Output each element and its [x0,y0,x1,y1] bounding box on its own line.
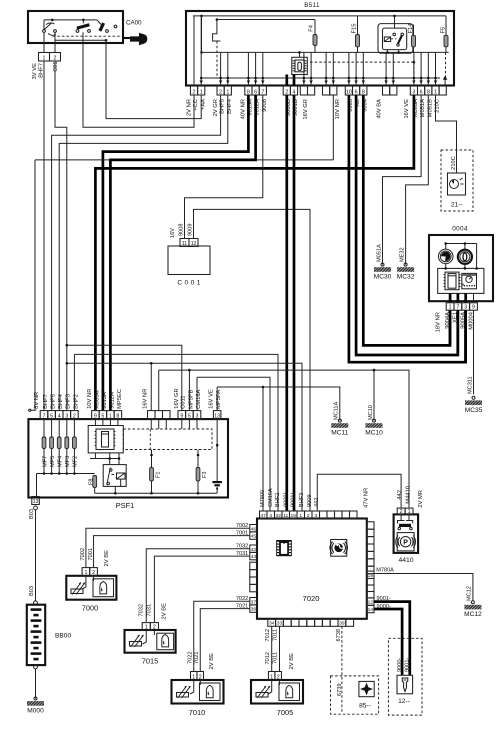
wire 7011 from 7005 to 7020 [279,626,281,671]
wire 7002 from 7000 to 7020 [86,528,250,567]
svg-text:1: 1 [226,89,229,95]
engine fusebox PSF1 [28,419,228,497]
svg-text:9: 9 [180,414,183,420]
svg-text:7021: 7021 [194,652,200,664]
svg-text:MC11A: MC11A [334,401,340,420]
svg-text:BB00: BB00 [55,633,71,640]
svg-text:2V BE: 2V BE [209,653,215,670]
svg-text:1: 1 [145,624,148,630]
4410 switch symbol [400,514,402,520]
0004 connector cells 1/7/3/9 [446,303,454,310]
wire XE1 thick 0004 pin7 [456,310,459,355]
wire 9000D thick from B511 to 7020 [285,95,288,511]
PSF1 relay socket [88,426,123,453]
svg-text:3: 3 [464,305,467,311]
svg-text:16V GR: 16V GR [174,388,180,409]
fuse F4 [313,35,317,46]
svg-text:M7800: M7800 [260,490,266,507]
svg-text:4: 4 [269,513,272,519]
0004 gauge lower stubs [445,264,447,269]
svg-text:MP5EC: MP5EC [117,389,123,409]
PSF1 top cell 13 [213,411,221,420]
0004 IC icon [445,272,459,290]
wire M0004 from 0004 pin9 to ground MC35 [473,310,475,394]
svg-text:MP5FB: MP5FB [188,389,194,408]
svg-text:MF4: MF4 [58,456,64,467]
PSF1 bottom internal wire [95,492,217,494]
0004 gauge 2 (fuel) [458,250,472,264]
svg-text:45: 45 [251,534,257,540]
7020 left cells [250,525,257,532]
svg-text:2: 2 [307,513,310,519]
connector C01 cells 1,2 under CA00 [39,53,50,62]
PSF1 top cells group 3 (16V NR) [148,411,156,420]
wire MP5FA / M7800 ground net [217,387,340,421]
svg-text:1: 1 [434,89,437,95]
B511 connector cells group 1 (2V NR) [190,86,197,95]
svg-text:5: 5 [50,414,53,420]
CA00 internal link wire lower [55,39,106,41]
fuse F8 [93,476,97,488]
svg-text:4410: 4410 [398,557,413,564]
wire 7031 from 7015 to 7020 [154,556,249,623]
svg-text:1: 1 [200,89,203,95]
svg-text:3V VE: 3V VE [32,63,38,80]
B511 bus line [202,51,449,53]
engine ECU 7020 box [257,519,367,619]
svg-text:1: 1 [109,414,112,420]
svg-text:9008: 9008 [178,224,184,236]
svg-text:MP5FA: MP5FA [216,390,222,409]
7015 internal wire [143,630,147,644]
svg-text:7032: 7032 [138,604,144,616]
4410 cells 2/1 [397,508,405,514]
svg-text:1: 1 [43,55,46,61]
wire 9000- thick from 7020 to injection unit [374,609,403,675]
svg-text:3: 3 [314,513,317,519]
svg-text:PSF1: PSF1 [116,501,134,510]
svg-text:7031: 7031 [147,604,153,616]
wire 7022 from 7010 to 7020 [194,601,250,671]
svg-text:F8: F8 [88,478,94,485]
svg-text:BHF5: BHF5 [50,394,56,409]
svg-text:2V BE: 2V BE [161,603,167,620]
svg-text:5: 5 [101,414,104,420]
wire 10V NR from B511 to PSF1 left [332,95,334,160]
fuse F3 [197,450,199,468]
B511 inner notch connector [213,20,221,42]
7010 internal wire [190,680,194,694]
svg-text:BHF4: BHF4 [58,393,64,409]
svg-text:85--: 85-- [359,703,371,710]
PSF1 top cells group 4 (9/5/3) [178,411,186,420]
B511 connector cells group 2 (2V GR) [217,86,224,95]
svg-text:33: 33 [277,621,283,627]
svg-text:9009: 9009 [187,224,193,236]
svg-text:BHF2: BHF2 [275,493,281,507]
svg-text:7: 7 [43,414,46,420]
wire 9009 from C001 to 7020 [194,209,311,511]
wire BHF3 net to 7020 [67,363,302,511]
stub to PSF1 16V NR cells [150,363,152,410]
PSF1 internal bus to B03 [37,473,95,475]
svg-text:1: 1 [270,674,273,680]
key symbol [123,37,130,39]
svg-text:F3: F3 [202,471,208,478]
PSF1 socket pin stubs [94,419,96,425]
svg-text:16V VE: 16V VE [404,99,410,119]
wire 442 from 7020 to 4410 [317,474,401,511]
svg-text:6: 6 [254,89,257,95]
svg-text:2: 2 [219,89,222,95]
wire B03 to battery [35,510,37,601]
B511 internal bottom wire [202,77,440,79]
svg-text:C011: C011 [181,395,187,408]
svg-text:MC10: MC10 [368,405,374,420]
wire CM16A net PSF1 to 7020 [197,377,270,511]
svg-text:14: 14 [368,607,374,613]
svg-text:11: 11 [182,241,187,247]
svg-text:B03: B03 [29,586,35,596]
svg-text:39: 39 [339,621,345,627]
7020 top cells [260,511,268,519]
svg-text:18V NR: 18V NR [435,312,441,332]
svg-text:BHF3: BHF3 [66,394,72,409]
svg-text:12--: 12-- [398,698,410,705]
PSF1 cell 13 bottom and B03 terminal [32,497,40,505]
PSF1 fuses MF7 MF5 MF4 MF3 MF2 [43,419,45,437]
svg-text:MC30: MC30 [374,274,392,281]
svg-text:4: 4 [58,414,61,420]
svg-text:2V BE: 2V BE [289,653,295,670]
B511 inner wire to fuse F4 [217,19,315,21]
svg-text:XC03A: XC03A [94,390,100,409]
B511 connector cells group 7 (40V BA) [383,86,390,95]
svg-text:6739: 6739 [337,684,343,696]
0004 connector stubs [449,293,452,302]
svg-text:BHF3: BHF3 [299,493,305,507]
CA00 mechanical dashed link to key [53,35,123,37]
svg-text:M780A: M780A [376,568,394,574]
B511 connector cells group 4 (9000D/9001D) [283,86,290,95]
0004 small gauge icon [462,273,477,288]
svg-text:2V BE: 2V BE [104,550,110,567]
svg-text:7012: 7012 [265,652,271,664]
CA00 switch 2 [76,30,79,33]
fuse F1 [151,450,153,468]
svg-text:B511: B511 [304,2,320,9]
svg-text:2: 2 [285,89,288,95]
svg-text:2: 2 [92,570,95,576]
svg-text:M051A: M051A [377,244,383,262]
7000 internal wire [82,576,86,589]
svg-text:6: 6 [355,89,358,95]
svg-text:1: 1 [84,570,87,576]
svg-text:2: 2 [73,414,76,420]
svg-text:MC12: MC12 [467,586,473,601]
B511 dashed internals [310,61,414,63]
svg-text:40V BA: 40V BA [376,99,382,119]
dashed injection unit 12 [388,638,422,715]
wire BHF7 from CA00 to PSF1 [43,61,45,411]
svg-text:47: 47 [261,513,267,519]
injector icon [397,675,413,694]
wire 9001- thick from 7020 to injection unit [374,602,410,676]
air temp sensor 7015 [125,630,176,653]
wire 210C from B511 to clock unit [436,95,457,173]
svg-text:M4410: M4410 [405,486,411,504]
svg-text:1: 1 [192,674,195,680]
wire +CC from CA00 switch 2 to B511 [83,32,194,127]
wire C011 net [67,345,182,410]
CA00 internal link wire top [44,19,97,21]
svg-text:C01: C01 [53,62,59,72]
svg-text:MF3: MF3 [65,456,71,467]
wire 9005 thick from B511 to cluster 0004 [349,95,466,362]
7020 IC icon [276,540,292,556]
ignition switch CA00 box [28,11,123,43]
svg-text:2: 2 [400,509,403,515]
svg-text:4: 4 [293,89,296,95]
svg-text:15: 15 [291,513,297,519]
svg-text:2V GR: 2V GR [213,99,219,116]
wire 9005A thick 0004 pin3 [464,310,467,362]
svg-text:9013A: 9013A [102,392,108,409]
svg-text:0004: 0004 [452,226,468,233]
svg-text:MC10: MC10 [365,430,383,437]
0004 gauge 1 (speed) [438,249,453,264]
B511 connector cells group 6 (10/6/8) [345,86,352,95]
PSF1 internal ground [216,419,218,481]
svg-text:7010: 7010 [189,708,205,717]
svg-text:21--: 21-- [451,202,463,209]
svg-text:3: 3 [412,89,415,95]
svg-text:8: 8 [247,89,250,95]
svg-text:43: 43 [251,554,257,560]
B511 connector cells group 3 (40V NR) [245,86,252,95]
svg-text:C 0 0 1: C 0 0 1 [177,280,200,287]
svg-text:2: 2 [277,674,280,680]
svg-text:MC12: MC12 [464,611,482,618]
B511 connector cells group 8 (3/6/8/1) [410,86,417,95]
svg-text:7022: 7022 [188,652,194,664]
B511 connector stubs [220,52,222,86]
svg-text:2: 2 [193,89,196,95]
svg-text:8V NR: 8V NR [34,392,40,409]
B511 arrow symbol [444,78,446,86]
svg-text:442: 442 [397,490,403,500]
svg-text:7: 7 [456,305,459,311]
svg-text:2V MR: 2V MR [418,490,424,508]
svg-text:6: 6 [420,89,423,95]
wire MP5FB net (2V MR) [159,370,409,508]
svg-text:1: 1 [299,513,302,519]
svg-text:B03: B03 [29,509,35,519]
wire 7001 from 7000 to 7020 [94,536,250,568]
connector unit C001 [168,246,210,275]
B511 relay 2 with switch [378,24,413,54]
wire 7032 from 7015 to 7020 [146,549,250,623]
wire XE thick from B511 to cluster 0004 [356,95,458,355]
svg-text:13: 13 [33,499,39,505]
PSF1 relay switch box [103,465,126,487]
svg-text:3: 3 [196,414,199,420]
svg-text:7020: 7020 [303,594,320,603]
svg-text:MC311: MC311 [467,376,473,394]
instrument cluster 0004 box [429,235,493,301]
svg-text:7011: 7011 [273,652,279,664]
svg-text:9012A: 9012A [109,392,115,409]
svg-text:CM16A: CM16A [268,488,274,507]
svg-text:M000: M000 [27,708,44,715]
battery to ground M000 [34,665,38,669]
svg-text:CM16A: CM16A [196,389,202,408]
svg-text:8: 8 [427,89,430,95]
svg-text:7: 7 [261,89,264,95]
B511 connector cells group 5 (10V NR) [323,86,330,95]
4410 parking brake icon [397,533,414,551]
wire 6738 dashed from 7020 to unit 85 [341,626,343,712]
svg-text:MF5: MF5 [50,456,56,467]
svg-text:9: 9 [94,414,97,420]
wire 9012A thick from B511 to PSF1 [110,95,255,411]
svg-text:16V: 16V [170,228,176,238]
svg-text:210C: 210C [451,156,457,170]
svg-text:F1: F1 [155,471,161,478]
svg-text:8: 8 [362,89,365,95]
wire BHF4 from B511 to PSF1 [59,95,228,411]
C001 cells 11/12 [180,239,189,247]
svg-text:16V VE: 16V VE [208,389,214,409]
svg-text:BHF7: BHF7 [43,394,49,409]
wire M051A from B511 to ground MC30 [383,95,422,265]
svg-text:11: 11 [283,513,288,519]
svg-text:9001-: 9001- [405,658,411,672]
fuse F15 [357,16,359,35]
svg-text:7005: 7005 [277,708,293,717]
svg-text:9001I: 9001I [291,493,297,507]
svg-text:MC32: MC32 [397,274,415,281]
svg-text:MC35: MC35 [465,407,483,414]
svg-text:10V NR: 10V NR [87,389,93,409]
svg-text:7001: 7001 [88,548,94,560]
svg-text:13: 13 [214,414,220,420]
7020 right cells [367,522,374,529]
wire 7021 from 7010 to 7020 [200,609,250,672]
battery BB00 [27,605,45,665]
svg-text:1: 1 [449,305,452,311]
svg-text:P: P [403,539,408,546]
svg-text:F4: F4 [308,24,314,32]
PSF1 relay socket dashed extension [123,429,212,450]
dashed unit 21 box [441,150,473,211]
svg-text:7000: 7000 [82,604,98,613]
PSF1 top cells group 2 [92,411,100,420]
svg-text:1: 1 [408,509,411,515]
CA00 switch 1 [43,30,46,33]
svg-text:10V NR: 10V NR [335,99,341,119]
svg-text:40V NR: 40V NR [241,99,247,119]
CA00 switch 3 [106,30,109,33]
svg-text:16V NR: 16V NR [142,389,148,409]
svg-text:7002: 7002 [80,548,86,560]
0004 internal top wire [446,243,477,245]
PSF1 top cells group 1 [40,411,48,420]
svg-text:7012: 7012 [265,629,271,641]
ground MC35 [472,396,475,399]
0004 junction dots [444,267,447,270]
svg-text:MF2: MF2 [73,456,79,467]
svg-text:3: 3 [65,414,68,420]
wire M780A from 7020 to ground MC12 [374,574,473,601]
0004 inner sub-box [438,268,484,293]
7005 internal wire [268,680,272,694]
svg-text:12: 12 [191,241,197,247]
handbrake switch 4410 box [394,514,419,553]
BSI unit B511 box [186,11,454,86]
svg-text:47V NR: 47V NR [364,488,370,508]
wire XC03A thick from B511 to PSF1 [95,95,414,411]
svg-text:2V NR: 2V NR [186,99,192,116]
B511 relay 1 (double square) [292,57,308,74]
svg-text:9000I: 9000I [283,493,289,507]
7020 lambda icon [331,540,347,557]
wire BHF3 from CA00 connector to PSF1 [55,61,67,411]
svg-text:9000-: 9000- [397,658,403,672]
svg-text:36: 36 [251,607,257,613]
svg-text:8: 8 [116,414,119,420]
wire 9004A thick 0004 pin1 [449,310,452,345]
wire 9013A thick from B511 to PSF1 [103,95,249,411]
svg-text:BHF2: BHF2 [73,394,79,409]
svg-text:2: 2 [153,624,156,630]
coolant sensor 7000 [66,576,116,600]
wire BHF5 from B511 to PSF1 [52,95,221,411]
svg-text:MC11: MC11 [331,430,348,437]
wire BHF2 net PSF1 to 7020 [74,354,278,511]
svg-text:7015: 7015 [142,657,158,666]
svg-text:16V GR: 16V GR [303,99,309,120]
sensor 7005 [251,680,303,704]
svg-text:32: 32 [276,513,282,519]
svg-text:ME32: ME32 [400,247,406,262]
svg-text:7011: 7011 [273,629,279,641]
sensor 7010 [172,680,224,704]
wire M051B (ME32) from B511 to ground MC32 [406,95,429,265]
fan icon in unit 85 [359,681,374,696]
svg-text:34: 34 [269,621,275,627]
wire 9008 from B511 to C001 [185,95,263,239]
svg-text:10: 10 [346,89,352,95]
svg-text:9: 9 [472,305,475,311]
clock icon in unit 21 [448,173,466,195]
svg-text:5: 5 [188,414,191,420]
branch to ground MC10 [373,370,375,421]
svg-text:2: 2 [199,674,202,680]
wire 9004 thick from B511 to cluster 0004 [363,95,450,345]
svg-text:2: 2 [54,55,57,61]
wire +AA from CA00 switch 3 to B511 [106,40,201,118]
svg-text:9009: 9009 [307,495,313,507]
svg-text:6738: 6738 [336,629,342,641]
svg-text:MF7: MF7 [42,456,48,467]
wire 7012 from 7005 to 7020 [271,626,273,671]
7020 bottom cells [268,619,276,627]
PSF1 16VNR cell stubs [150,419,152,429]
wire 9001D thick from B511 to 7020 [293,95,296,511]
svg-text:F15: F15 [352,24,358,34]
B511 inner wire top [193,15,446,17]
